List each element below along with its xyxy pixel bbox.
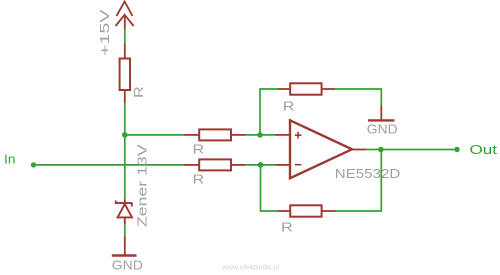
resistor R1 xyxy=(120,44,130,103)
diode D1 zener xyxy=(116,200,132,225)
wire bias junction to R2 xyxy=(125,134,184,136)
wire R2 to op-amp plus xyxy=(245,134,276,136)
svg-text:R: R xyxy=(281,221,293,235)
svg-text:R: R xyxy=(283,100,295,114)
svg-text:Zener 13V: Zener 13V xyxy=(135,144,150,227)
svg-text:Out: Out xyxy=(470,142,498,157)
resistor R5 xyxy=(278,205,336,216)
svg-text:GND: GND xyxy=(112,257,143,272)
wire R4 to op-amp minus xyxy=(245,164,276,166)
wire zener to GND2 xyxy=(124,224,126,236)
svg-text:+15V: +15V xyxy=(97,9,112,56)
resistor R4 xyxy=(184,159,245,170)
junction minus input xyxy=(258,162,264,168)
wire minus junction down to R5 xyxy=(261,165,279,211)
wire R3 to GND corner xyxy=(335,89,382,106)
svg-text:www.elektroda.pl: www.elektroda.pl xyxy=(221,262,279,271)
resistor R2 xyxy=(184,129,245,140)
wire supply to R1 xyxy=(124,29,126,45)
svg-text:R: R xyxy=(132,86,146,98)
svg-text:NE5532D: NE5532D xyxy=(335,166,401,181)
wire R5 to output node xyxy=(336,150,382,212)
wire output xyxy=(366,149,457,151)
svg-text:GND: GND xyxy=(367,122,398,137)
resistor R3 xyxy=(278,83,335,94)
svg-text:In: In xyxy=(4,151,16,166)
node Out xyxy=(454,147,459,152)
supply +15V symbol xyxy=(116,2,134,30)
svg-text:R: R xyxy=(193,173,205,187)
junction node bias xyxy=(122,132,128,138)
ground GND1 xyxy=(368,106,395,121)
junction output xyxy=(378,147,384,153)
wire plus junction up to R3 xyxy=(260,89,278,135)
op-amp U1 xyxy=(276,120,367,178)
wire In to R4 xyxy=(34,164,185,166)
junction plus input xyxy=(257,132,263,138)
ground GND2 xyxy=(112,237,137,256)
wire R1 to zener xyxy=(124,103,126,200)
svg-text:R: R xyxy=(193,143,205,157)
